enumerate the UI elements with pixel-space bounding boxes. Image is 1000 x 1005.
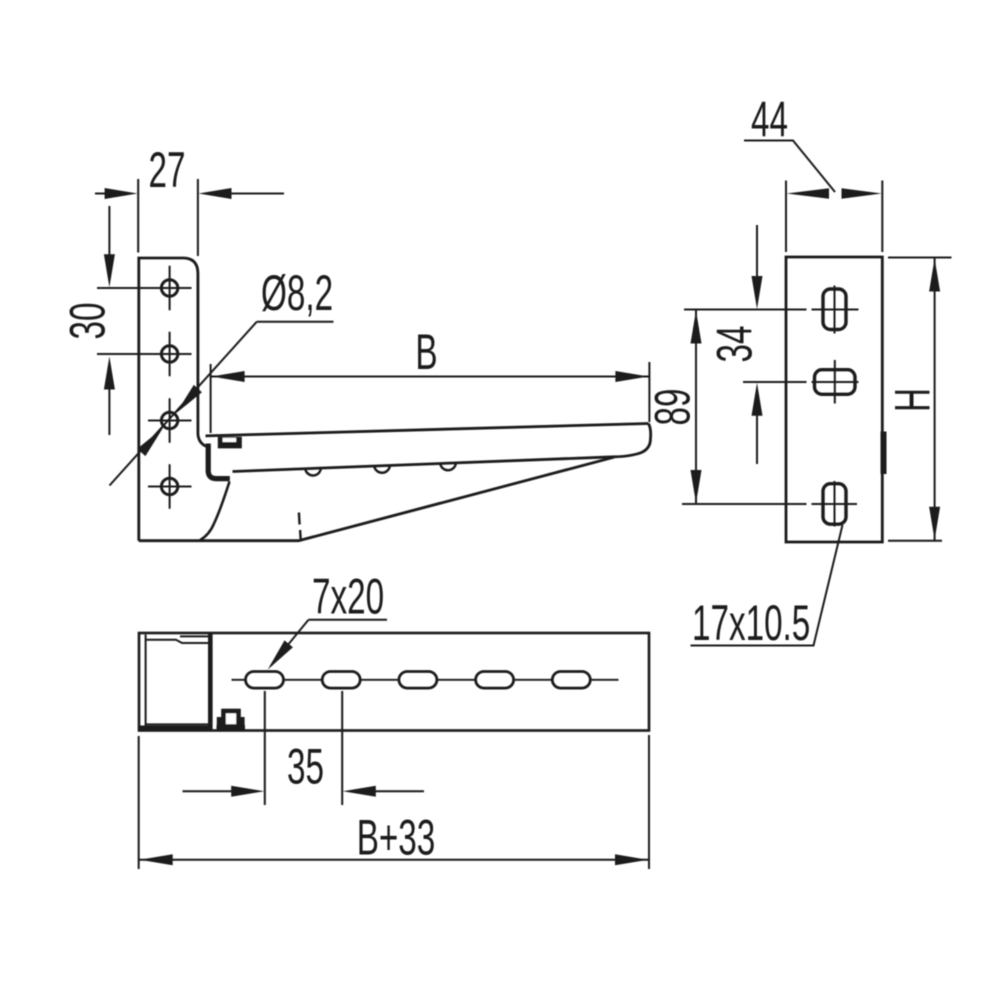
front view: slot 2 centerlines — [743, 360, 859, 404]
side view: dashed bend line — [299, 513, 301, 542]
dim B: extension lines — [211, 362, 650, 433]
side view: arm top edge — [206, 424, 649, 436]
bottom view: slot C — [399, 672, 437, 689]
side view: hole 3 crosshair — [148, 398, 192, 443]
front view: plate outline — [786, 257, 882, 542]
side view: arm right end nose — [614, 424, 651, 457]
bottom view: thick bottom bar of plate section — [140, 726, 213, 731]
side view: plate bottom and gusset diagonal — [139, 457, 614, 541]
dim 35: dimension line with outside arrows — [183, 790, 425, 792]
dim B: dimension line with inside arrows — [211, 376, 650, 378]
svg-text:B: B — [415, 324, 437, 379]
dim 44: back-to-back arrows — [787, 188, 829, 198]
front view: slot 3 centerlines — [682, 481, 857, 527]
side view: slot bumps on arm bottom edge — [305, 463, 456, 476]
svg-text:30: 30 — [60, 303, 115, 340]
side view: hole 1 — [161, 280, 177, 296]
side view: hole 4 crosshair — [148, 464, 192, 509]
svg-text:27: 27 — [149, 142, 186, 197]
dim 89: dimension line with inside arrows — [695, 310, 697, 505]
side view: arm bottom edge — [233, 457, 615, 472]
front view: slot 2 (horizontal) — [815, 370, 856, 395]
bottom view: slot E — [552, 672, 590, 689]
dim B+33: extension lines — [139, 735, 649, 869]
side view: hole 3 — [161, 412, 177, 428]
dim 34: dimension line with outside arrows — [756, 225, 758, 464]
svg-text:17x10.5: 17x10.5 — [692, 595, 810, 650]
bottom view: slot D — [476, 672, 514, 689]
svg-text:B+33: B+33 — [357, 810, 436, 865]
dim H: extension lines — [888, 258, 952, 541]
front view: slot 1 centerlines — [684, 286, 859, 334]
bottom view: inner top line with step — [146, 636, 208, 643]
svg-text:35: 35 — [287, 739, 324, 794]
front view: slot 1 (vertical) — [823, 289, 846, 330]
front view: slot 3 (vertical) — [823, 484, 846, 525]
bottom view: slot A — [246, 672, 284, 689]
dim B+33: dimension line with inside arrows — [139, 859, 649, 861]
dim 44: leader and text — [744, 141, 835, 193]
bottom view: slot B — [322, 672, 360, 689]
svg-text:Ø8,2: Ø8,2 — [261, 265, 333, 320]
svg-text:7x20: 7x20 — [312, 569, 384, 624]
dim 27: extension lines — [138, 179, 198, 256]
label 17x10.5: leader to slot 3 — [691, 525, 843, 646]
dim 30: dimension line with outside arrows — [108, 206, 110, 435]
side view: hole 4 — [161, 478, 177, 494]
dim H: dimension line with inside arrows — [934, 258, 936, 541]
bottom view: thick right edge of plate section — [208, 634, 213, 731]
side view: mounting plate outline — [139, 258, 208, 541]
bottom view: inner bottom line — [146, 723, 208, 725]
side view: clamp hook (black detail) — [218, 437, 242, 449]
bottom view: clamp tab — [217, 711, 246, 731]
front view: weld mark on right edge — [881, 432, 887, 475]
svg-text:34: 34 — [707, 326, 762, 363]
svg-text:44: 44 — [751, 92, 788, 147]
side view: hole 1 crosshair — [97, 266, 192, 311]
side view: hole 2 — [161, 346, 177, 362]
bottom view: inner left edge line — [145, 635, 147, 729]
side view: gusset bend line (left curved edge) — [200, 482, 230, 541]
dim 44: extension lines — [786, 181, 882, 253]
label 7x20: leader with arrow — [271, 620, 387, 666]
bottom view: outline — [139, 633, 649, 731]
side view: hole 2 crosshair — [97, 332, 192, 377]
svg-text:89: 89 — [645, 389, 700, 426]
svg-text:H: H — [885, 388, 940, 412]
bottom view: slot centerline segments — [232, 679, 619, 681]
dim 27: dimension line with outside arrows — [95, 193, 284, 195]
dim 35: extension lines — [265, 691, 342, 805]
side view: thick bent lip L-section — [208, 444, 230, 479]
label Ø8,2: leader line through hole 3 — [110, 322, 334, 486]
